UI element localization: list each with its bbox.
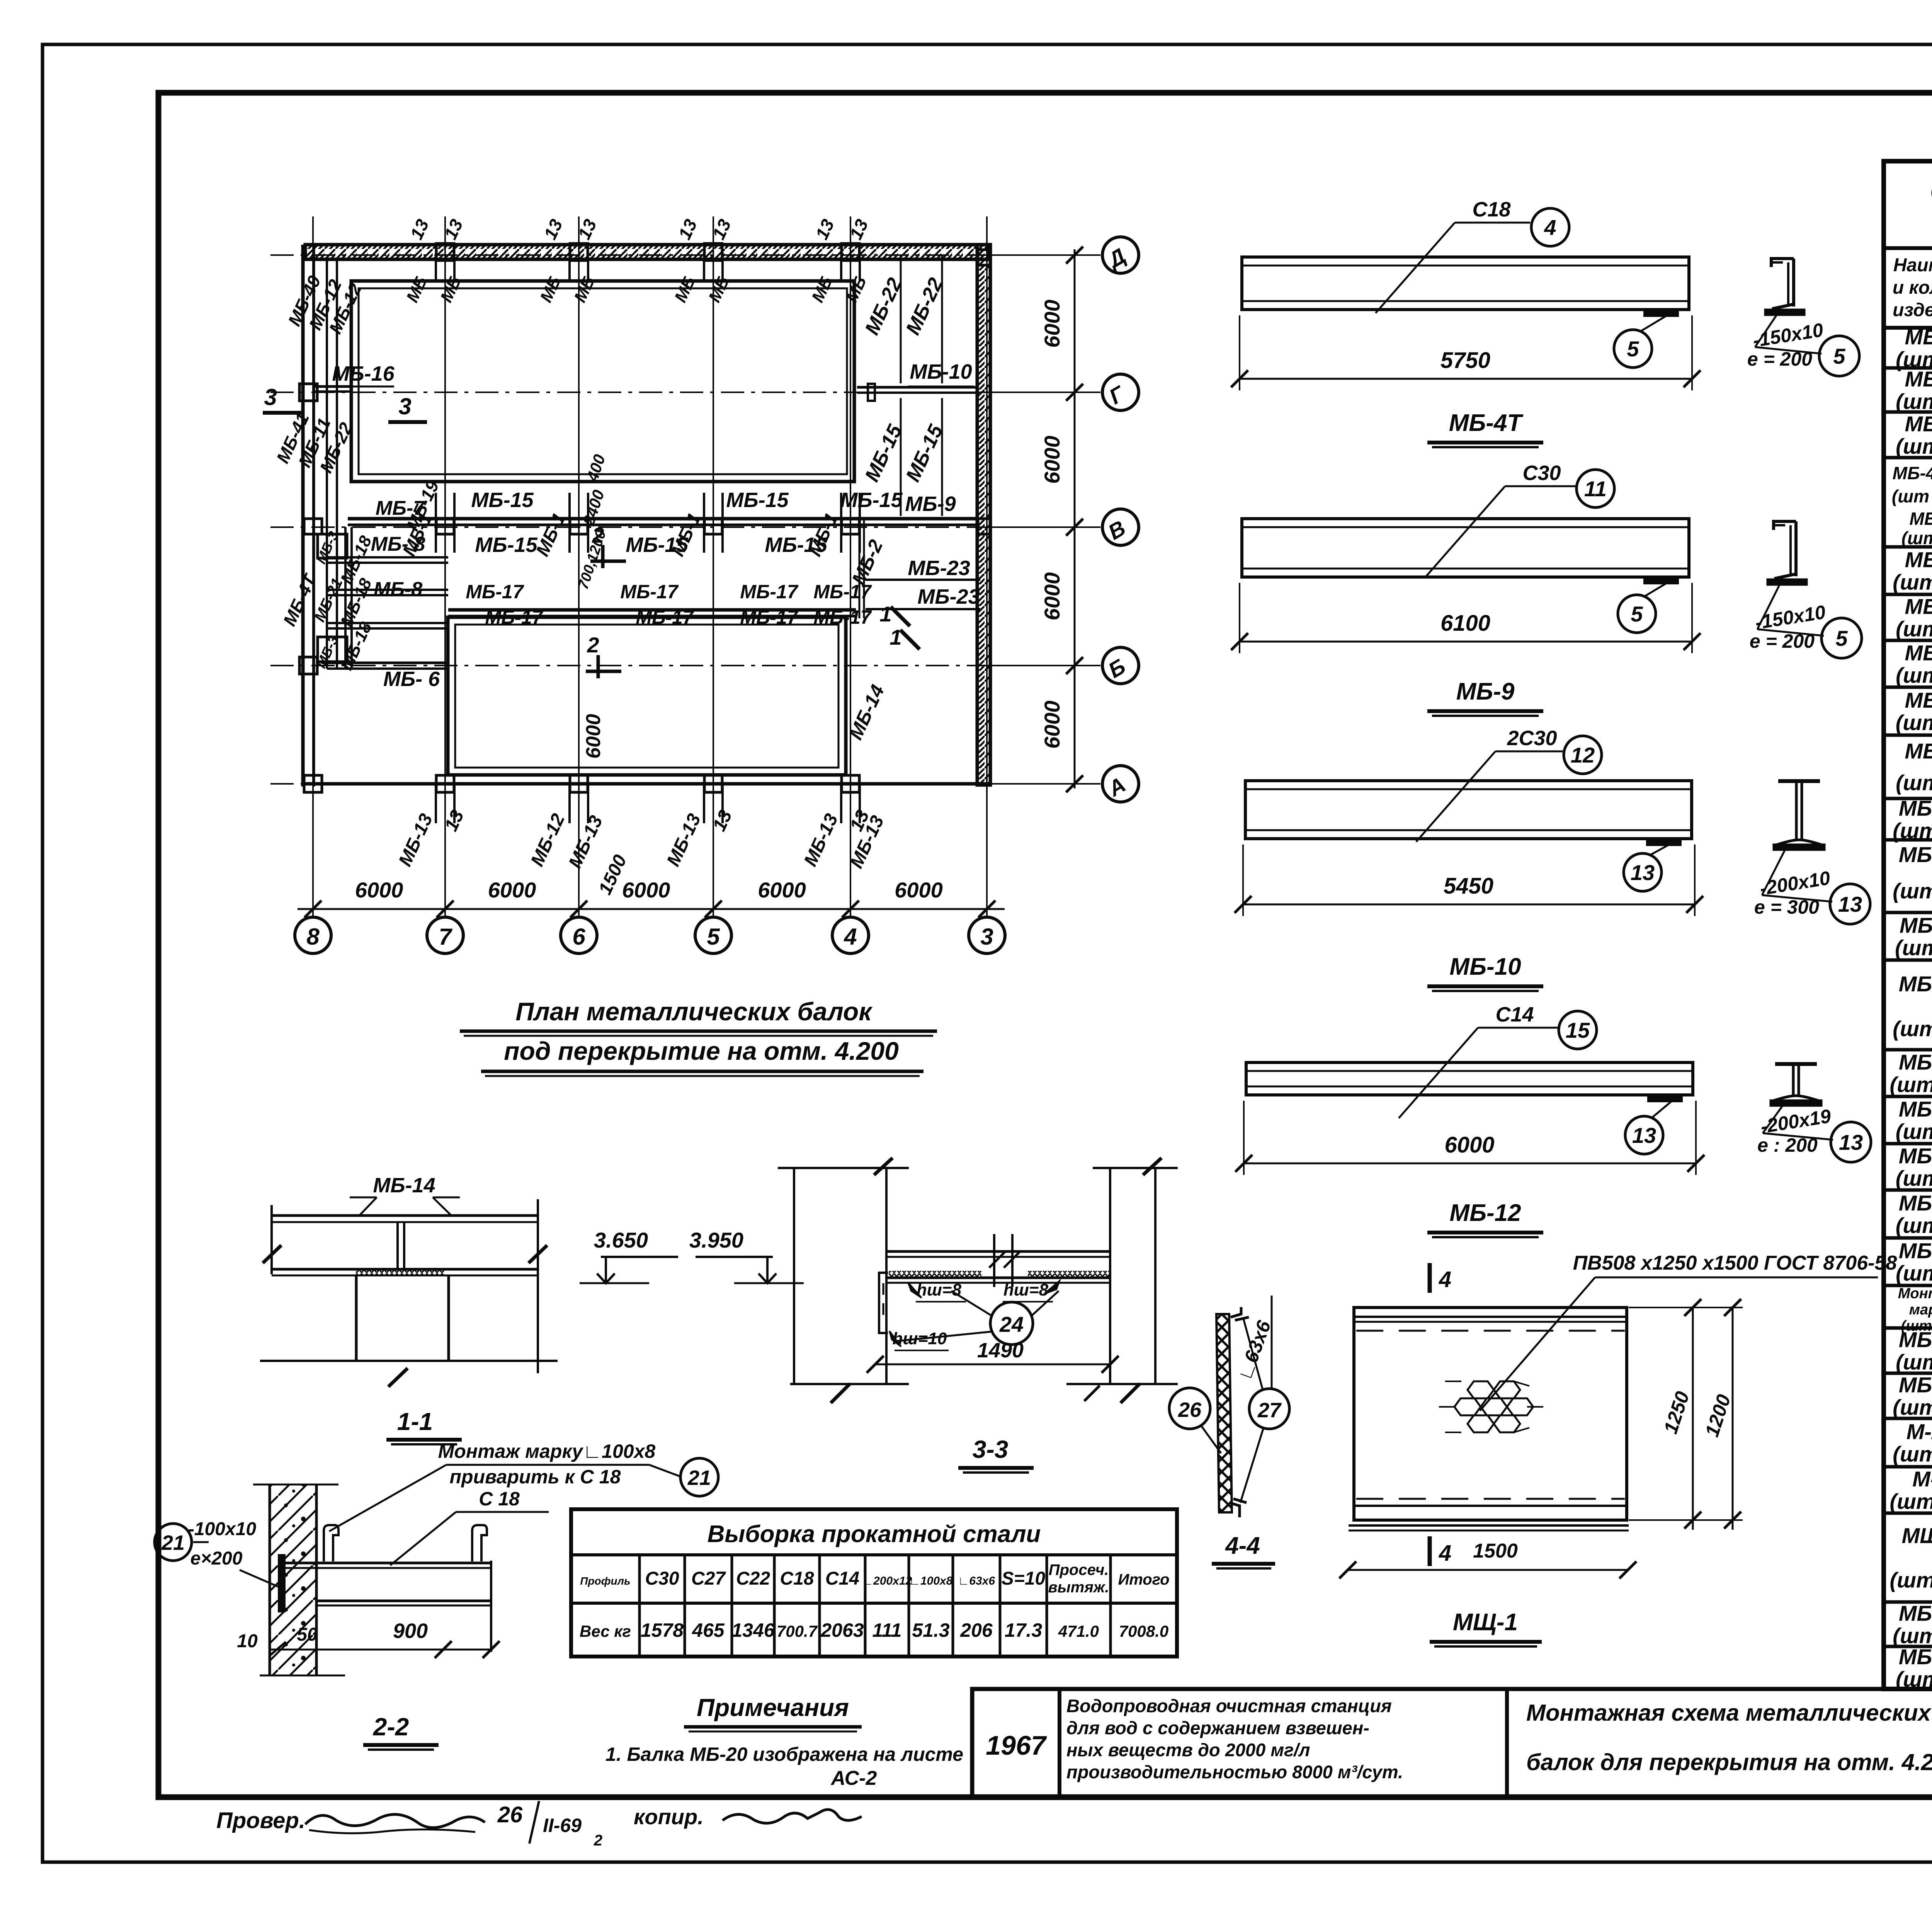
svg-text:13: 13: [540, 216, 566, 243]
svg-text:∟200х12: ∟200х12: [862, 1575, 912, 1587]
plan short beams row Д verticals: [435, 259, 437, 281]
section 4-4 circle 27: [1249, 1389, 1289, 1429]
plan upper tank double rectangle: [351, 281, 854, 482]
svg-text:Монтажная схема металлически: Монтажная схема металлических: [1526, 1700, 1932, 1726]
I-beam section symbol: [1775, 1062, 1817, 1066]
beam support plate МБ-9: [1645, 578, 1678, 583]
beam label circle МБ-10: [1564, 736, 1602, 774]
svg-text:МБ-16: МБ-16: [1899, 1191, 1932, 1215]
svg-text:марка: марка: [1909, 1302, 1932, 1318]
svg-text:5: 5: [1833, 344, 1845, 368]
svg-text:(шт.1): (шт.1): [1896, 617, 1932, 641]
svg-text:3: 3: [398, 393, 411, 419]
svg-text:МБ-22: МБ-22: [1899, 1645, 1932, 1669]
svg-text:е = 300: е = 300: [1754, 896, 1819, 918]
svg-text:3-3: 3-3: [973, 1435, 1009, 1463]
svg-text:4: 4: [1439, 1267, 1451, 1292]
svg-text:МБ-14: МБ-14: [1899, 1097, 1932, 1121]
svg-text:(шт.6): (шт.6): [1896, 434, 1932, 458]
svg-text:приварить к С 18: приварить к С 18: [450, 1466, 621, 1488]
svg-text:МБ-14: МБ-14: [373, 1174, 435, 1197]
svg-text:(шт 2): (шт 2): [1896, 710, 1932, 735]
section 1-1 right edge: [537, 1199, 539, 1373]
svg-text:МБ-15: МБ-15: [471, 489, 534, 512]
beam support plate МБ-12: [1648, 1096, 1682, 1101]
plan wall band row Д (hatched): [305, 245, 989, 259]
svg-text:М-21: М-21: [1906, 1420, 1932, 1444]
svg-text:для вод с содержанием взв: для вод с содержанием взвешен-: [1066, 1718, 1369, 1738]
svg-text:1. Балка МБ-20 изображена н: 1. Балка МБ-20 изображена на листе: [605, 1743, 963, 1765]
section 3-3 left column: [793, 1168, 795, 1384]
svg-text:МБ-11: МБ-11: [1900, 913, 1932, 938]
svg-text:(шт.15): (шт.15): [1890, 1073, 1932, 1097]
svg-text:Спецификация стали: Спецификация стали: [1930, 176, 1932, 207]
svg-text:МБ-13: МБ-13: [800, 810, 842, 870]
plan wall band column 3 (hatched): [977, 245, 990, 785]
beam body МБ-10: [1245, 781, 1692, 839]
svg-text:6000: 6000: [1040, 701, 1064, 749]
note circle 21: [680, 1458, 718, 1496]
note leader lines: [329, 1465, 446, 1531]
svg-text:13: 13: [708, 216, 735, 243]
svg-text:(шт 1): (шт 1): [1896, 1213, 1932, 1238]
svg-text:1578: 1578: [641, 1619, 684, 1641]
svg-text:6000: 6000: [1444, 1132, 1494, 1158]
section 1-1 top slab: [271, 1214, 539, 1217]
svg-text:465: 465: [692, 1619, 725, 1641]
svg-text:12: 12: [1571, 743, 1595, 767]
svg-text:План металлических балок: План металлических балок: [515, 997, 873, 1026]
svg-text:Примечания: Примечания: [697, 1694, 849, 1721]
svg-text:МБ-10: МБ-10: [1899, 843, 1932, 867]
svg-text:1200: 1200: [1701, 1392, 1735, 1439]
svg-text:13: 13: [1632, 1123, 1656, 1147]
section 2-2 channel glyph right: [472, 1525, 487, 1561]
svg-text:МБ-4ТиН: МБ-4ТиН: [1893, 463, 1932, 483]
svg-text:МБ-15: МБ-15: [901, 421, 947, 485]
svg-text:50: 50: [297, 1624, 318, 1645]
svg-text:700.7: 700.7: [777, 1622, 818, 1640]
svg-text:МБ: МБ: [705, 274, 733, 305]
svg-text:МБ-17: МБ-17: [485, 606, 544, 628]
svg-text:-200х10: -200х10: [1758, 867, 1832, 899]
section symbol circle: [1819, 336, 1859, 376]
svg-text:1967: 1967: [986, 1730, 1047, 1760]
svg-text:13: 13: [674, 216, 701, 243]
svg-text:МБ-12: МБ-12: [1899, 972, 1932, 996]
svg-text:4-4: 4-4: [1225, 1532, 1260, 1559]
svg-text:4: 4: [1439, 1541, 1451, 1566]
svg-text:26: 26: [1178, 1398, 1202, 1422]
beam body МБ-9: [1242, 519, 1689, 577]
svg-text:МБ-17: МБ-17: [466, 581, 524, 603]
svg-text:(шт.1): (шт.1): [1896, 771, 1932, 795]
svg-text:900: 900: [393, 1619, 428, 1643]
svg-text:(шт-1): (шт-1): [1895, 936, 1932, 960]
svg-text:∟100х8: ∟100х8: [909, 1575, 953, 1587]
svg-text:Монтаж.: Монтаж.: [1898, 1285, 1932, 1302]
svg-text:МБ-20: МБ-20: [1899, 1601, 1932, 1626]
big table header band lines: [1884, 246, 1932, 250]
svg-text:-200х19: -200х19: [1759, 1105, 1832, 1137]
svg-text:24: 24: [999, 1312, 1024, 1336]
svg-text:26: 26: [497, 1802, 523, 1827]
svg-text:7: 7: [439, 924, 452, 950]
section 3-3 upper beam lines: [886, 1250, 1110, 1253]
section 1-1 pedestal: [355, 1275, 358, 1360]
small table verticals: [638, 1555, 641, 1657]
svg-text:400: 400: [583, 452, 609, 484]
svg-text:1: 1: [879, 602, 891, 626]
svg-text:МБ-18: МБ-18: [1899, 1328, 1932, 1352]
svg-text:6100: 6100: [1440, 611, 1490, 636]
section 3-3 middle break: [993, 1234, 995, 1287]
svg-text:С30: С30: [1522, 461, 1561, 485]
svg-text:Выборка прокатной стали: Выборка прокатной стали: [707, 1521, 1041, 1548]
section symbol leader and label: [1763, 1105, 1783, 1133]
svg-text:(шт. 1): (шт. 1): [1893, 879, 1932, 903]
svg-text:6000: 6000: [582, 714, 605, 759]
svg-text:С14: С14: [825, 1568, 859, 1589]
beam plate circle МБ-4Т: [1614, 330, 1652, 368]
section symbol circle: [1821, 618, 1862, 658]
plan beams row В verticals МБ-1: [435, 493, 437, 553]
svg-text:М-1: М-1: [1912, 1467, 1932, 1491]
svg-text:2-2: 2-2: [373, 1713, 409, 1741]
svg-text:27: 27: [1257, 1399, 1282, 1422]
svg-text:1490: 1490: [977, 1339, 1024, 1362]
section 3-3 lower chord with packing: [886, 1277, 1110, 1279]
svg-text:7008.0: 7008.0: [1119, 1622, 1168, 1640]
panel МЩ-1 section marks 4: [1428, 1263, 1432, 1293]
beam dimension МБ-10: [1243, 904, 1695, 906]
plan small rect МБ-3 upper: [318, 534, 347, 558]
svg-text:МБ: МБ: [570, 274, 599, 305]
channel section symbol: [1771, 259, 1794, 267]
small table header row line: [571, 1602, 1177, 1605]
svg-text:МБ-17: МБ-17: [1899, 1239, 1932, 1263]
svg-text:МБ-17: МБ-17: [740, 581, 799, 603]
plan bottom edge row А: [303, 782, 990, 786]
svg-text:(шт-1): (шт-1): [1901, 528, 1932, 548]
section symbol leader and label: [1755, 314, 1777, 347]
svg-text:3: 3: [980, 924, 993, 950]
svg-text:МБ-23: МБ-23: [1899, 796, 1932, 821]
plan column pads: [436, 243, 454, 260]
svg-text:13: 13: [406, 216, 433, 243]
svg-text:(шт.12): (шт.12): [1890, 1568, 1932, 1592]
beam label leader МБ-12: [1478, 1027, 1558, 1029]
section 1-1 left edge: [270, 1205, 273, 1274]
svg-text:МБ: МБ: [808, 274, 836, 305]
svg-text:(шт 1+1): (шт 1+1): [1892, 486, 1932, 506]
plan beams row Б (МБ-17 line): [448, 608, 856, 612]
plan small rect МБ-3 lower: [318, 637, 347, 662]
svg-text:МБ-15: МБ-15: [726, 489, 789, 512]
svg-text:2: 2: [587, 633, 599, 657]
svg-text:6000: 6000: [895, 878, 943, 902]
svg-text:8: 8: [306, 924, 320, 950]
small table frame: [571, 1509, 1177, 1657]
plan short beams below row А verticals: [435, 784, 437, 823]
svg-text:5: 5: [707, 924, 720, 950]
svg-text:С14: С14: [1495, 1003, 1534, 1026]
svg-text:13: 13: [1839, 1130, 1863, 1154]
plan beams МБ-23 bay 4-3: [866, 579, 980, 581]
section 4-4 axis line: [1271, 1296, 1273, 1388]
svg-text:3.950: 3.950: [689, 1228, 743, 1252]
svg-text:13: 13: [1631, 860, 1655, 885]
svg-text:ных веществ до 2000 мг/л: ных веществ до 2000 мг/л: [1066, 1740, 1310, 1760]
svg-text:МБ-8: МБ-8: [1905, 688, 1932, 712]
svg-text:6: 6: [572, 924, 585, 950]
svg-text:е×200: е×200: [190, 1548, 243, 1569]
svg-text:МБ-15: МБ-15: [861, 421, 906, 485]
svg-text:МБ-2: МБ-2: [1905, 367, 1932, 391]
svg-text:17.3: 17.3: [1005, 1619, 1043, 1641]
panel МЩ-1 bottom dimension 1500: [1348, 1569, 1628, 1571]
big table outer frame: [1884, 161, 1932, 1689]
svg-text:1500: 1500: [1473, 1540, 1518, 1562]
panel МЩ-1 bottom band: [1354, 1505, 1627, 1507]
svg-text:Просеч.: Просеч.: [1049, 1561, 1109, 1578]
svg-text:ПВ508 х1250 х1500 ГОСТ 8706-58: ПВ508 х1250 х1500 ГОСТ 8706-58: [1573, 1252, 1897, 1274]
panel МЩ-1 top band: [1354, 1316, 1627, 1318]
svg-text:II-69: II-69: [543, 1815, 582, 1836]
beam label leader МБ-10: [1495, 751, 1563, 752]
svg-text:(шт.10): (шт.10): [1890, 1489, 1932, 1514]
beam support plate МБ-10: [1647, 839, 1680, 845]
svg-text:13: 13: [811, 216, 838, 243]
svg-text:МБ-19: МБ-19: [1899, 1373, 1932, 1397]
svg-text:1: 1: [889, 625, 901, 649]
svg-text:3: 3: [264, 384, 277, 410]
svg-text:МБ-5: МБ-5: [1905, 548, 1932, 572]
svg-text:копир.: копир.: [634, 1805, 704, 1829]
section 4-4 hatched strip: [1216, 1314, 1232, 1512]
svg-text:1250: 1250: [1660, 1389, 1694, 1436]
svg-text:МБ-23: МБ-23: [917, 585, 980, 608]
beam label circle МБ-12: [1559, 1011, 1597, 1049]
title block verticals: [1058, 1689, 1061, 1797]
svg-text:МБ-13: МБ-13: [663, 810, 705, 870]
svg-text:6000: 6000: [622, 878, 670, 902]
svg-text:(шт.1): (шт.1): [1896, 389, 1932, 414]
svg-text:МБ-22: МБ-22: [901, 274, 947, 338]
svg-text:6000: 6000: [1040, 436, 1064, 484]
svg-text:е = 200: е = 200: [1747, 348, 1812, 370]
plan left wall double line: [301, 245, 305, 787]
section 2-2 dimension 900: [285, 1649, 492, 1651]
plan bottom column circles: [295, 917, 331, 953]
svg-text:1-1: 1-1: [397, 1408, 433, 1435]
plan grid column lines: [312, 216, 314, 918]
svg-text:-150х10: -150х10: [1753, 601, 1827, 633]
section symbol circle: [1831, 1122, 1871, 1162]
plan left sub-grid beams: [344, 527, 347, 669]
svg-text:Итого: Итого: [1118, 1571, 1169, 1588]
svg-text:МБ-8: МБ-8: [374, 578, 422, 601]
svg-text:МБ-9: МБ-9: [1905, 739, 1932, 763]
svg-text:5: 5: [1627, 337, 1639, 361]
svg-text:МБ-7: МБ-7: [1905, 641, 1932, 665]
svg-text:МБ-18: МБ-18: [337, 533, 376, 587]
section 2-2 wall (concrete hatch): [270, 1485, 316, 1675]
plan grid row lines (dash-dot): [270, 254, 1097, 256]
svg-text:МБ: МБ: [536, 274, 565, 305]
svg-text:S=10: S=10: [1002, 1568, 1046, 1589]
svg-text:балок для перекрытия на: балок для перекрытия на отм. 4.200: [1526, 1749, 1932, 1775]
svg-text:∟63х6: ∟63х6: [1233, 1317, 1275, 1383]
svg-text:МБ-15: МБ-15: [1899, 1144, 1932, 1168]
svg-text:МЩ-1: МЩ-1: [1453, 1609, 1518, 1636]
svg-text:МБ- 8: МБ- 8: [371, 533, 425, 555]
svg-text:(шт 1): (шт 1): [1896, 1119, 1932, 1144]
svg-text:МБ-12: МБ-12: [527, 810, 569, 870]
svg-text:МБ-15: МБ-15: [475, 533, 537, 557]
svg-text:111: 111: [872, 1619, 901, 1641]
panel МЩ-1 right dimensions: [1692, 1306, 1694, 1530]
svg-text:МБ-17: МБ-17: [636, 606, 694, 628]
section 1-1 mid beam web: [396, 1222, 399, 1269]
svg-text:С27: С27: [691, 1568, 726, 1589]
svg-text:471.0: 471.0: [1058, 1622, 1099, 1640]
svg-text:3.650: 3.650: [594, 1228, 648, 1252]
svg-text:6000: 6000: [758, 878, 806, 902]
svg-text:13: 13: [440, 216, 467, 243]
title block frame: [972, 1689, 1932, 1797]
section 2-2 beam lines: [285, 1562, 492, 1565]
svg-text:15: 15: [1566, 1018, 1590, 1042]
svg-text:51.3: 51.3: [912, 1619, 950, 1641]
svg-text:под перекрытие на отм. 4.: под перекрытие на отм. 4.200: [504, 1037, 899, 1065]
svg-text:МБ: МБ: [403, 274, 431, 305]
beam body МБ-12: [1246, 1062, 1693, 1095]
svg-text:МЩ-1: МЩ-1: [1902, 1524, 1932, 1548]
svg-text:С30: С30: [645, 1568, 679, 1589]
section 2-2 anchor plate: [279, 1555, 284, 1611]
beam label circle МБ-4Т: [1531, 208, 1569, 246]
section 3-3 left bracket (dashed): [879, 1273, 888, 1333]
plan beam МБ-6 row Б left: [327, 662, 448, 664]
svg-text:МБ-3: МБ-3: [1905, 412, 1932, 436]
svg-text:МБ: МБ: [671, 274, 699, 305]
plan beam МБ-16 row Г left: [314, 385, 351, 388]
section 1-1 packing strip: [356, 1269, 444, 1276]
section 1-1 lower slab: [272, 1268, 539, 1271]
svg-text:(шт. 1): (шт. 1): [1893, 570, 1932, 594]
svg-text:13: 13: [1838, 892, 1862, 916]
plan left beam strip: [326, 258, 328, 669]
panel МЩ-1 outline: [1354, 1308, 1627, 1520]
svg-text:(шт. 1): (шт. 1): [1893, 1442, 1932, 1466]
svg-text:Профиль: Профиль: [580, 1575, 630, 1587]
beam body МБ-4Т: [1242, 257, 1689, 310]
svg-text:21: 21: [687, 1466, 711, 1490]
svg-text:МБ-6: МБ-6: [1905, 594, 1932, 619]
plan beam МБ-10 row Г right: [857, 386, 977, 389]
svg-text:13: 13: [574, 216, 600, 243]
beam label leader МБ-4Т: [1455, 222, 1530, 224]
svg-text:2063: 2063: [820, 1619, 864, 1641]
svg-text:МБ-17: МБ-17: [620, 581, 679, 603]
svg-text:5: 5: [1631, 602, 1643, 626]
svg-text:1346: 1346: [731, 1619, 775, 1641]
svg-text:МБ-12: МБ-12: [1449, 1200, 1521, 1226]
svg-text:∟63х6: ∟63х6: [958, 1575, 995, 1587]
svg-text:5: 5: [1835, 626, 1848, 650]
section 2-2 channel glyph left: [324, 1525, 338, 1561]
svg-text:МБ-16: МБ-16: [332, 362, 395, 385]
svg-text:(шт. 1): (шт. 1): [1893, 1016, 1932, 1041]
svg-text:МБ-9: МБ-9: [1456, 678, 1515, 705]
svg-text:вытяж.: вытяж.: [1048, 1579, 1109, 1596]
svg-text:изделий: изделий: [1893, 300, 1932, 320]
svg-text:МБ-4: МБ-4: [1910, 509, 1932, 529]
svg-text:(шт.9): (шт.9): [1896, 1261, 1932, 1285]
plan right row circles: [1102, 237, 1139, 273]
section 4-4 top angle fitting: [1231, 1307, 1249, 1320]
beam label circle МБ-9: [1577, 470, 1614, 507]
svg-text:(шт.1): (шт.1): [1896, 663, 1932, 688]
svg-text:11: 11: [1584, 477, 1607, 501]
svg-text:Наимен.: Наимен.: [1893, 255, 1932, 276]
svg-text:5750: 5750: [1440, 348, 1490, 373]
plan beam МБ-2 vertical: [859, 520, 861, 618]
svg-text:МБ-15: МБ-15: [840, 489, 903, 512]
svg-text:4: 4: [1544, 215, 1556, 240]
plan right dimension chain: [1074, 249, 1076, 788]
svg-text:6000: 6000: [355, 878, 403, 902]
svg-text:МБ: МБ: [437, 274, 465, 305]
beam dimension МБ-9: [1240, 641, 1692, 643]
svg-text:С22: С22: [736, 1568, 770, 1589]
svg-text:МБ-23: МБ-23: [908, 557, 970, 580]
svg-text:21: 21: [161, 1531, 185, 1554]
svg-text:МБ-1: МБ-1: [1905, 325, 1932, 349]
svg-text:6000: 6000: [488, 878, 536, 902]
svg-text:МБ-13: МБ-13: [1899, 1050, 1932, 1074]
svg-text:-100х10: -100х10: [188, 1519, 256, 1539]
beam dimension МБ-4Т: [1240, 378, 1692, 380]
svg-text:С18: С18: [780, 1568, 814, 1589]
section 2-2 circle 21: [155, 1524, 192, 1561]
section 3-3 right column: [1109, 1168, 1111, 1384]
beam label leader МБ-9: [1505, 485, 1575, 487]
svg-text:10: 10: [237, 1631, 258, 1651]
svg-text:С18: С18: [1472, 198, 1510, 221]
beam plate circle МБ-9: [1618, 595, 1656, 633]
plan beam axes bay 4-3 МБ-22: [900, 255, 902, 383]
svg-text:МБ-4Т: МБ-4Т: [1449, 410, 1524, 436]
svg-text:6000: 6000: [1040, 572, 1064, 621]
I-beam section symbol: [1778, 779, 1820, 783]
svg-text:и кол-во: и кол-во: [1893, 278, 1932, 298]
section 4-4 bottom angle fitting: [1232, 1499, 1247, 1517]
plan beam axes bay 4-3 МБ-15: [900, 398, 902, 516]
svg-text:(шт.2): (шт.2): [1896, 1350, 1932, 1374]
svg-text:13: 13: [845, 216, 872, 243]
section symbol circle: [1830, 884, 1870, 924]
svg-text:МБ-17: МБ-17: [740, 606, 799, 628]
svg-text:5450: 5450: [1444, 873, 1493, 899]
section 3-3 circle 24: [990, 1302, 1033, 1345]
svg-text:Монтаж марку∟100х8: Монтаж марку∟100х8: [438, 1440, 656, 1462]
svg-text:6000: 6000: [1040, 300, 1064, 348]
svg-text:МБ-17: МБ-17: [813, 606, 872, 628]
section symbol leader and label: [1762, 850, 1785, 895]
section 3-3 dim line: [875, 1364, 1110, 1365]
